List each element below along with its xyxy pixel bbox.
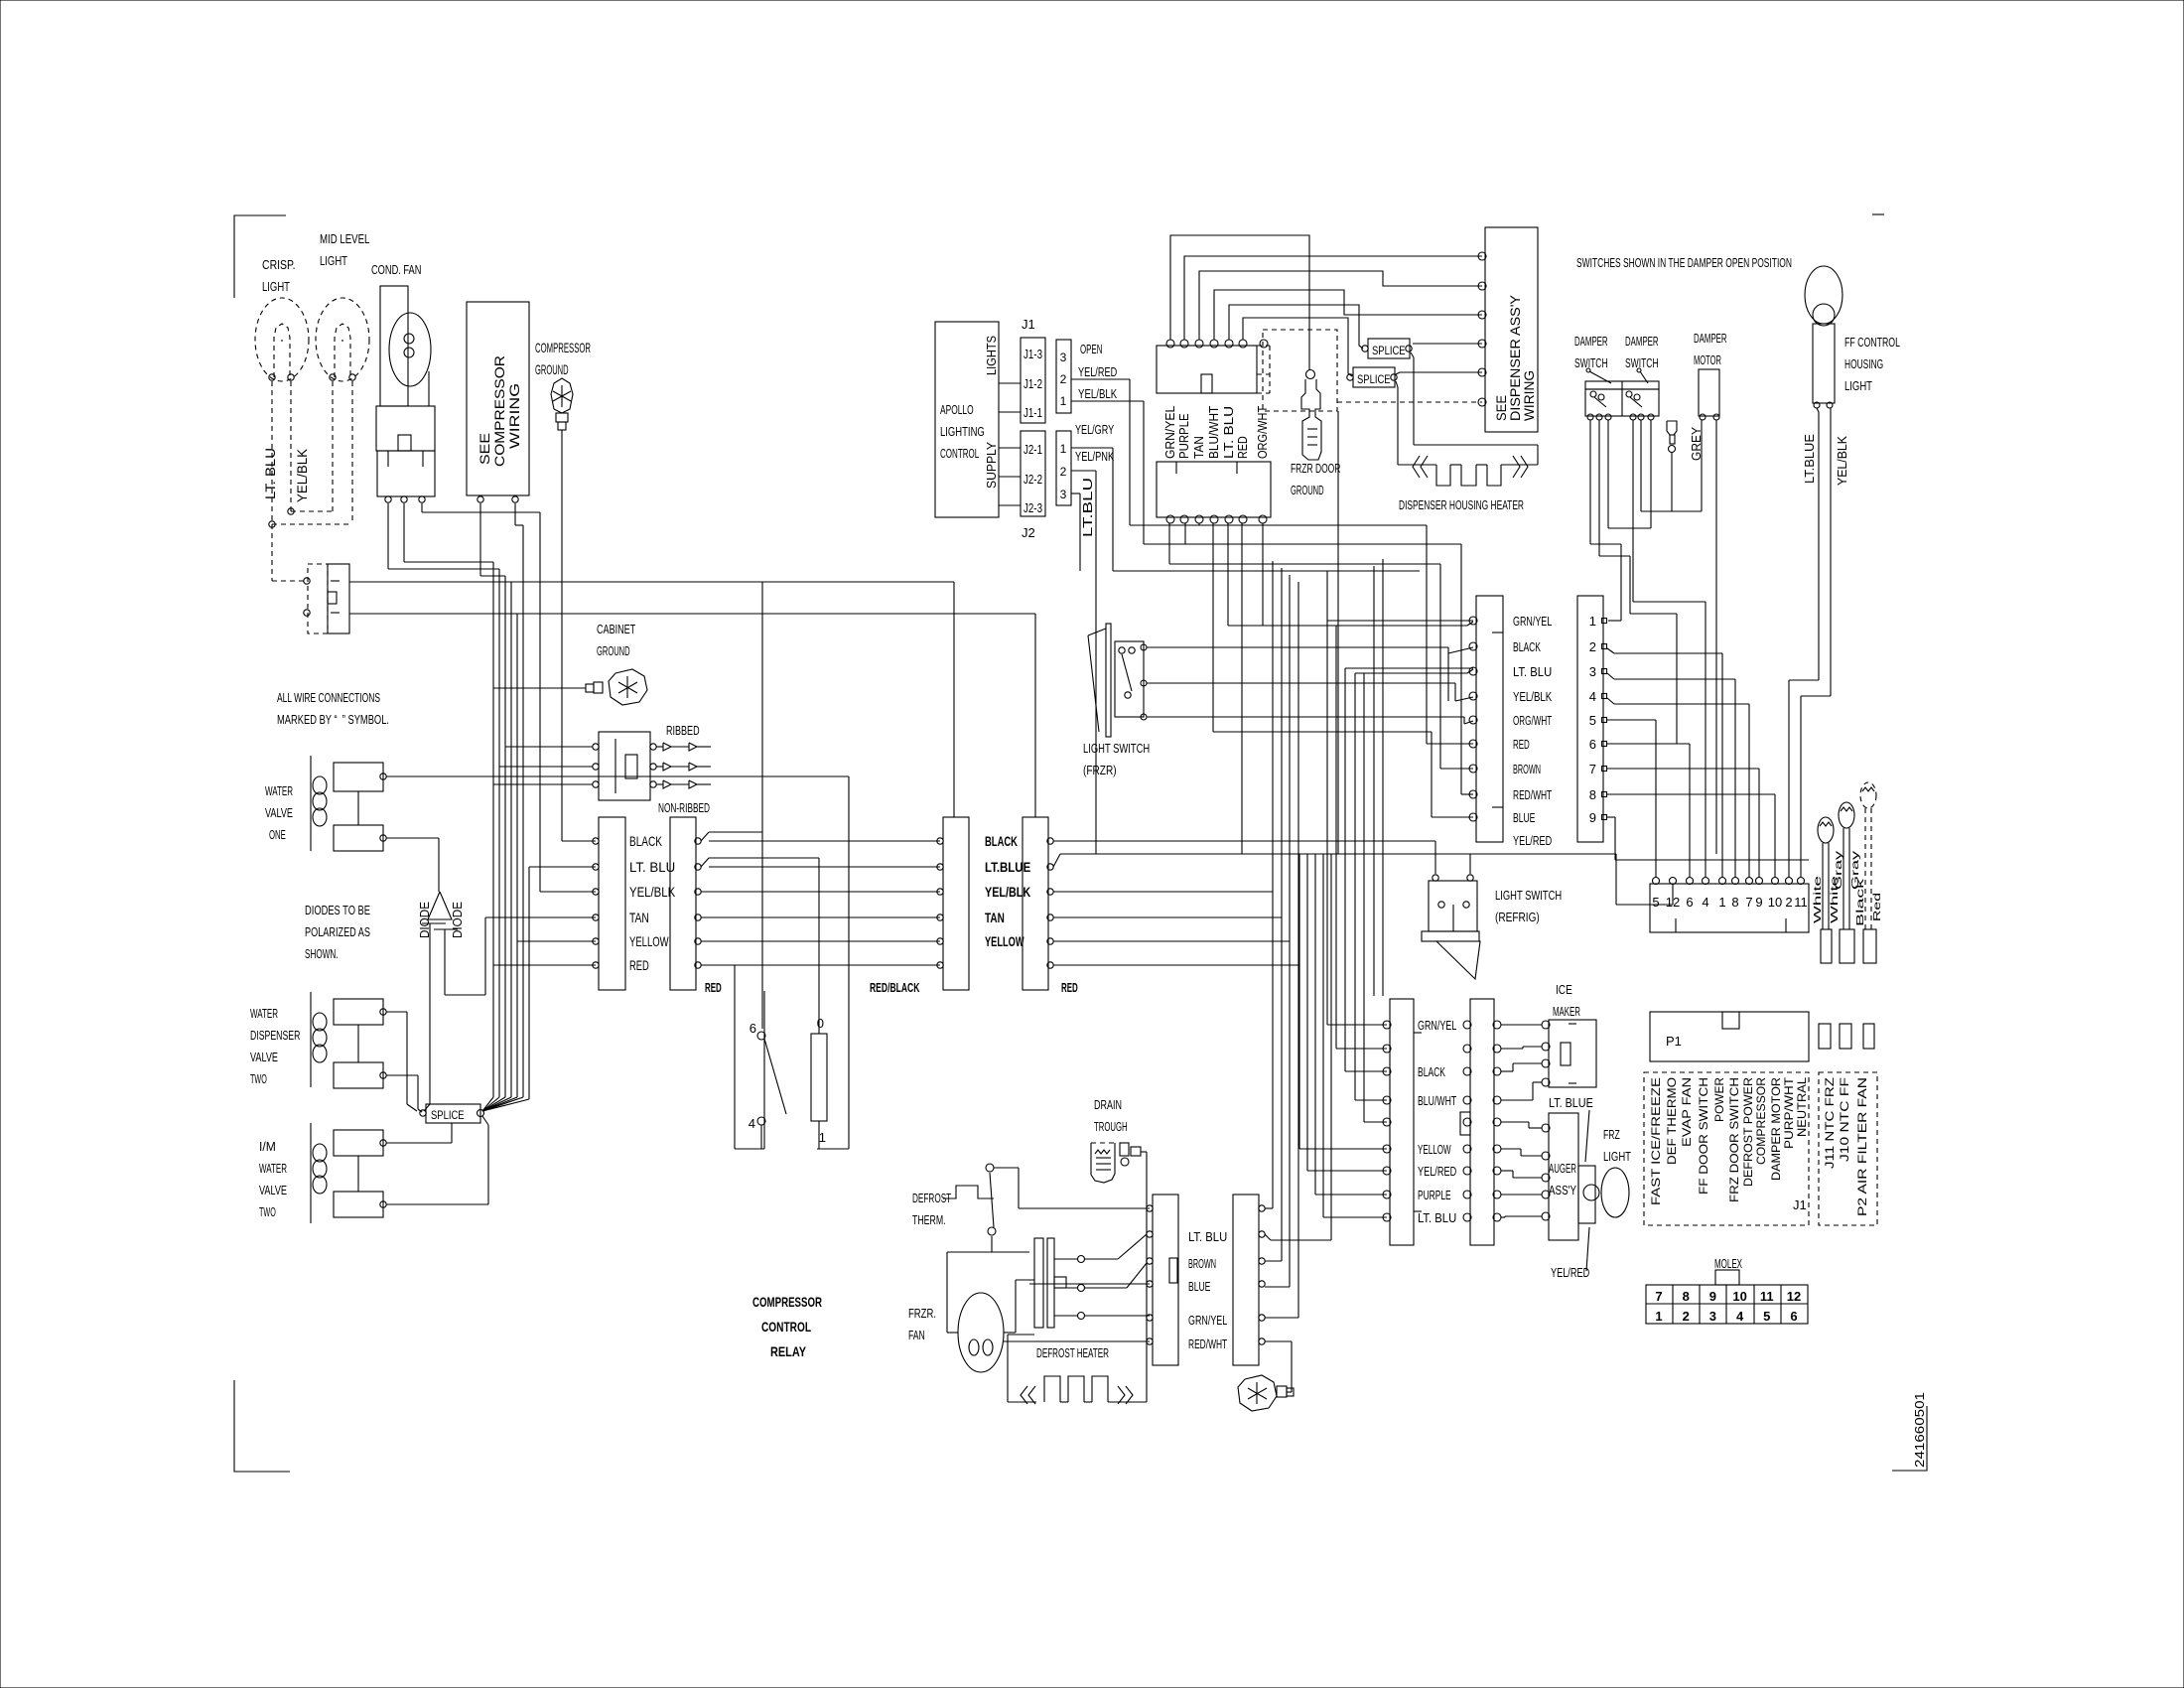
svg-text:FF CONTROL: FF CONTROL bbox=[1844, 335, 1900, 350]
wire S4 BLACK to light switch refrig bbox=[1053, 840, 1435, 842]
wires GC-R to auger bbox=[1501, 1121, 1529, 1123]
svg-text:CONTROL: CONTROL bbox=[940, 446, 979, 461]
svg-text:SWITCH: SWITCH bbox=[1574, 355, 1608, 370]
svg-text:HOUSING: HOUSING bbox=[1844, 356, 1883, 371]
svg-text:LT.BLU: LT.BLU bbox=[1080, 478, 1095, 537]
svg-text:9: 9 bbox=[1709, 1289, 1716, 1304]
wire splice A down to heater bbox=[1411, 352, 1414, 357]
svg-text:1: 1 bbox=[1655, 1309, 1662, 1324]
svg-text:6: 6 bbox=[1790, 1309, 1797, 1324]
svg-text:DISPENSER HOUSING HEATER: DISPENSER HOUSING HEATER bbox=[1399, 497, 1524, 512]
svg-text:SWITCHES SHOWN IN THE DAMPER O: SWITCHES SHOWN IN THE DAMPER OPEN POSITI… bbox=[1576, 255, 1792, 270]
svg-text:RED: RED bbox=[1513, 737, 1530, 752]
damper motor bbox=[1699, 369, 1719, 416]
connector GC-L bbox=[1390, 999, 1414, 1245]
svg-text:LT. BLU: LT. BLU bbox=[1221, 406, 1236, 459]
wire NB9 jog bbox=[1607, 816, 1615, 818]
svg-text:PURP/WHT: PURP/WHT bbox=[1782, 1076, 1796, 1149]
wires apollo to J2 bbox=[999, 447, 1021, 449]
wire switch to right y618 bbox=[349, 613, 1035, 615]
svg-text:AUGER: AUGER bbox=[1549, 1161, 1576, 1176]
svg-text:Gray: Gray bbox=[1834, 851, 1844, 890]
svg-text:SPLICE: SPLICE bbox=[1357, 372, 1391, 386]
wire switch to right y586 bbox=[349, 581, 954, 583]
wire risers right of bundle bbox=[1373, 566, 1375, 996]
wire cabinet ground bbox=[493, 687, 586, 689]
svg-text:YEL/BLK: YEL/BLK bbox=[1078, 386, 1117, 401]
svg-text:RED: RED bbox=[1235, 436, 1250, 459]
dashed box J1 signal names bbox=[1644, 1072, 1809, 1225]
wire LT.BLU jog to resistor bbox=[701, 858, 709, 867]
svg-text:4: 4 bbox=[1702, 895, 1708, 910]
bundle B wires into GC-L lower bbox=[1298, 854, 1300, 1149]
wires into CB GRN/YEL double bbox=[1327, 620, 1473, 622]
svg-text:YEL/BLK: YEL/BLK bbox=[1835, 436, 1849, 486]
svg-text:P1: P1 bbox=[1666, 1034, 1682, 1049]
cond fan motor bbox=[380, 286, 408, 406]
svg-text:LIGHT SWITCH: LIGHT SWITCH bbox=[1083, 741, 1150, 756]
connector J2 pin box bbox=[1056, 431, 1071, 505]
wire valve two bottom bbox=[386, 1074, 418, 1076]
svg-text:LT.BLUE: LT.BLUE bbox=[1802, 434, 1817, 484]
svg-text:ORG/WHT: ORG/WHT bbox=[1513, 713, 1552, 728]
svg-text:TWO: TWO bbox=[259, 1204, 276, 1219]
ff control housing light bulb bbox=[1805, 266, 1843, 324]
svg-text:6: 6 bbox=[1686, 895, 1693, 910]
wire NB1 to damper bbox=[1608, 620, 1621, 622]
svg-text:RED/BLACK: RED/BLACK bbox=[870, 980, 920, 995]
relay resistor bbox=[811, 1034, 827, 1121]
svg-text:J1-3: J1-3 bbox=[1024, 347, 1042, 361]
svg-text:ONE: ONE bbox=[269, 827, 286, 842]
svg-text:12: 12 bbox=[1666, 895, 1680, 910]
svg-text:YEL/RED: YEL/RED bbox=[1513, 833, 1552, 848]
wire dashed box riser down bbox=[1337, 411, 1339, 854]
svg-text:0: 0 bbox=[817, 1016, 824, 1031]
wire L1 to frzr door ground bbox=[1170, 235, 1309, 370]
svg-text:White: White bbox=[1813, 875, 1824, 923]
svg-text:VALVE: VALVE bbox=[259, 1183, 287, 1197]
svg-text:LIGHT SWITCH: LIGHT SWITCH bbox=[1495, 888, 1562, 903]
svg-text:6: 6 bbox=[1589, 737, 1596, 752]
wire fan bottom to strip bbox=[1004, 1340, 1150, 1342]
svg-text:DISPENSER: DISPENSER bbox=[250, 1028, 300, 1043]
svg-text:4: 4 bbox=[1736, 1309, 1744, 1324]
crisp light bulb bbox=[255, 298, 309, 381]
svg-text:2: 2 bbox=[1683, 1309, 1690, 1324]
svg-text:YEL/PNK: YEL/PNK bbox=[1075, 449, 1114, 464]
svg-text:VALVE: VALVE bbox=[250, 1050, 278, 1064]
wire i/m valve bottom bbox=[386, 1203, 488, 1205]
svg-text:YEL/RED: YEL/RED bbox=[1418, 1164, 1456, 1179]
svg-text:Red: Red bbox=[1872, 893, 1883, 921]
page corner bracket bottom-left bbox=[234, 1380, 290, 1472]
svg-text:DAMPER MOTOR: DAMPER MOTOR bbox=[1769, 1077, 1783, 1181]
wire J2 pin2 YEL/PNK bbox=[1071, 470, 1096, 472]
svg-text:9: 9 bbox=[1589, 810, 1596, 825]
svg-text:TROUGH: TROUGH bbox=[1094, 1119, 1128, 1134]
svg-text:BLACK: BLACK bbox=[1418, 1064, 1445, 1079]
svg-text:4: 4 bbox=[1589, 689, 1596, 704]
wire J1 pin1 YEL/BLK bbox=[1071, 400, 1144, 402]
svg-text:YELLOW: YELLOW bbox=[1418, 1142, 1451, 1157]
damper switch assembly bbox=[1585, 381, 1659, 389]
dashed box NTC bbox=[1819, 1072, 1877, 1225]
svg-text:WIRING: WIRING bbox=[1521, 370, 1537, 421]
svg-text:YEL/RED: YEL/RED bbox=[1078, 364, 1117, 379]
frzr fan bbox=[958, 1293, 1004, 1372]
svg-text:TAN: TAN bbox=[1191, 436, 1206, 459]
svg-text:POWER: POWER bbox=[1712, 1077, 1726, 1122]
connector CB (wire colors) bbox=[1476, 596, 1503, 842]
svg-text:(FRZR): (FRZR) bbox=[1083, 763, 1117, 777]
wires into CB RED BROWN RED/WHT bbox=[1427, 743, 1473, 745]
dashed box frzr door ground bbox=[1263, 330, 1337, 411]
svg-text:FAN: FAN bbox=[908, 1328, 925, 1342]
svg-text:LIGHT: LIGHT bbox=[320, 253, 347, 268]
light switch (refrig) bbox=[1429, 881, 1477, 931]
svg-text:COMPRESSOR: COMPRESSOR bbox=[752, 1294, 822, 1310]
svg-text:LIGHTING: LIGHTING bbox=[940, 424, 985, 439]
svg-text:BROWN: BROWN bbox=[1513, 762, 1541, 776]
svg-text:9: 9 bbox=[1755, 895, 1762, 910]
svg-text:1: 1 bbox=[1060, 442, 1067, 456]
svg-text:DEF THERMO: DEF THERMO bbox=[1665, 1077, 1679, 1165]
svg-text:POLARIZED AS: POLARIZED AS bbox=[305, 924, 370, 939]
svg-text:RIBBED: RIBBED bbox=[666, 723, 700, 738]
svg-text:241660501: 241660501 bbox=[1912, 1392, 1927, 1468]
svg-text:7: 7 bbox=[1589, 762, 1596, 776]
svg-text:SHOWN.: SHOWN. bbox=[305, 946, 339, 961]
svg-text:11: 11 bbox=[1794, 895, 1808, 910]
wire J1 pin2 YEL/RED bbox=[1071, 378, 1130, 380]
svg-text:YEL/BLK: YEL/BLK bbox=[1513, 689, 1552, 704]
wire S4 YELLOW down bbox=[1053, 940, 1290, 942]
wire refrig switch right terminal bbox=[1469, 854, 1471, 874]
svg-text:LT. BLU: LT. BLU bbox=[1513, 664, 1552, 679]
svg-text:3: 3 bbox=[1060, 488, 1067, 501]
wire defrost therm top to strip bbox=[994, 1167, 1019, 1169]
wire J2 pin1 YEL/GRY bbox=[1071, 447, 1113, 449]
svg-text:BLACK: BLACK bbox=[1513, 639, 1541, 654]
svg-text:PURPLE: PURPLE bbox=[1176, 413, 1191, 459]
wire bundle verticals to splice bbox=[492, 562, 494, 1097]
svg-text:NON-RIBBED: NON-RIBBED bbox=[658, 800, 710, 815]
wires block lower down-steps bbox=[1168, 523, 1170, 564]
svg-text:YELLOW: YELLOW bbox=[985, 933, 1024, 949]
bottom connector 11-pin bbox=[1650, 884, 1809, 932]
svg-text:DEFROST POWER: DEFROST POWER bbox=[1741, 1077, 1755, 1187]
svg-text:LT. BLU: LT. BLU bbox=[1418, 1210, 1456, 1225]
svg-text:COMPRESSOR: COMPRESSOR bbox=[535, 340, 591, 355]
drain trough bbox=[1091, 1142, 1118, 1144]
svg-text:WATER: WATER bbox=[259, 1161, 287, 1176]
svg-text:J2: J2 bbox=[1022, 525, 1035, 540]
splice fan-down wires bbox=[482, 1116, 488, 1125]
part number bracket bottom-right bbox=[1892, 1406, 1927, 1471]
see dispenser assy wiring box bbox=[1485, 227, 1538, 432]
wire NB5 to pin5 bbox=[1607, 719, 1656, 721]
wire damper motor right down bbox=[1715, 420, 1717, 854]
wire see-compressor terminals into bundle bbox=[479, 503, 481, 576]
svg-text:GROUND: GROUND bbox=[597, 643, 630, 658]
wires S2 to S3 bbox=[701, 891, 940, 893]
svg-text:OPEN: OPEN bbox=[1080, 342, 1102, 356]
svg-text:6: 6 bbox=[750, 1021, 756, 1036]
apollo lighting control box bbox=[935, 322, 999, 517]
wire drain trough down right bbox=[1146, 1152, 1148, 1402]
svg-text:J1: J1 bbox=[1022, 317, 1035, 332]
wires DS2 right bbox=[1265, 1207, 1273, 1209]
middle connector block upper bbox=[1157, 346, 1257, 393]
cabinet ground 2 bbox=[1238, 1375, 1277, 1411]
svg-text:NEUTRAL: NEUTRAL bbox=[1795, 1077, 1809, 1137]
light switch (mid-level, top-left) bbox=[308, 564, 328, 633]
compressor ground lug bbox=[551, 378, 573, 413]
connector NB (numbered) bbox=[1577, 596, 1603, 842]
svg-text:FF DOOR SWITCH: FF DOOR SWITCH bbox=[1697, 1077, 1710, 1195]
svg-text:YELLOW: YELLOW bbox=[629, 933, 669, 949]
svg-text:J2-2: J2-2 bbox=[1024, 472, 1042, 487]
svg-text:Black: Black bbox=[1855, 877, 1866, 926]
svg-text:P2 AIR FILTER FAN: P2 AIR FILTER FAN bbox=[1855, 1077, 1869, 1216]
svg-text:2: 2 bbox=[1060, 465, 1067, 479]
svg-text:COND. FAN: COND. FAN bbox=[371, 262, 421, 277]
wire NB3 to pin8 bbox=[1607, 673, 1614, 679]
wire heater left up bbox=[1007, 1335, 1009, 1402]
thermistor gray bbox=[1839, 802, 1854, 828]
svg-text:(REFRIG): (REFRIG) bbox=[1495, 910, 1540, 924]
svg-text:10: 10 bbox=[1768, 895, 1782, 910]
svg-text:LT. BLUE: LT. BLUE bbox=[1549, 1095, 1593, 1110]
molex connector bbox=[1646, 1285, 1808, 1324]
svg-text:COMPRESSOR: COMPRESSOR bbox=[491, 355, 507, 467]
svg-text:MID LEVEL: MID LEVEL bbox=[320, 231, 369, 246]
wire J2 pin3 LT.BLU bbox=[1071, 492, 1080, 494]
wire L6 to splice B bbox=[1243, 318, 1352, 376]
svg-text:7: 7 bbox=[1745, 895, 1752, 910]
svg-text:1: 1 bbox=[1060, 394, 1067, 408]
svg-text:8: 8 bbox=[1731, 895, 1738, 910]
wire valve one bottom to diode bbox=[386, 837, 439, 839]
svg-text:J2-1: J2-1 bbox=[1024, 442, 1042, 457]
wire L4 to dispenser t3 bbox=[1214, 290, 1482, 340]
svg-text:1: 1 bbox=[1589, 614, 1596, 629]
svg-text:BROWN: BROWN bbox=[1188, 1256, 1216, 1271]
svg-text:LT. BLU: LT. BLU bbox=[1188, 1229, 1227, 1244]
svg-text:TAN: TAN bbox=[985, 910, 1005, 925]
svg-text:MAKER: MAKER bbox=[1553, 1004, 1580, 1019]
wire YEL/BLK from ff light to pin11 bbox=[1830, 408, 1832, 696]
middle connector block lower bbox=[1157, 462, 1271, 517]
wire splice A to dispenser t4 bbox=[1413, 343, 1482, 345]
svg-text:FRZR.: FRZR. bbox=[908, 1306, 936, 1321]
svg-text:TWO: TWO bbox=[250, 1071, 267, 1086]
connector strip S2 bbox=[670, 817, 696, 990]
svg-text:YEL/GRY: YEL/GRY bbox=[1075, 422, 1114, 437]
connector GC-R bbox=[1470, 999, 1494, 1245]
svg-text:LIGHTS: LIGHTS bbox=[984, 336, 999, 375]
wire BLACK jog to relay bbox=[701, 832, 709, 841]
svg-text:LIGHT: LIGHT bbox=[262, 279, 290, 294]
svg-text:3: 3 bbox=[1709, 1309, 1716, 1324]
bundle A wires into GC-L bbox=[1326, 571, 1328, 1025]
svg-text:MARKED BY “ ” SYMBOL.: MARKED BY “ ” SYMBOL. bbox=[277, 712, 389, 727]
defrost heater element bbox=[1008, 1401, 1036, 1403]
wire S4 LT.BLUE long jog bbox=[1053, 854, 1060, 867]
wires heater assy to strip DS1 bbox=[1085, 1258, 1118, 1260]
svg-text:RED/WHT: RED/WHT bbox=[1513, 787, 1552, 802]
damper switch wires bbox=[1589, 420, 1591, 544]
svg-text:YEL/BLK: YEL/BLK bbox=[294, 448, 310, 502]
heater chevrons right bbox=[1513, 456, 1520, 478]
wire crisp light dashed bbox=[271, 381, 273, 581]
splice A box bbox=[1368, 339, 1410, 358]
wires into CB LT.BLU double bbox=[1345, 667, 1473, 669]
connector strip S1 bbox=[599, 817, 625, 990]
svg-text:3: 3 bbox=[1060, 351, 1067, 364]
wires light switch frzr to connector bbox=[1147, 646, 1448, 648]
heater chevrons left bbox=[1413, 456, 1420, 478]
svg-text:COMPRESSOR: COMPRESSOR bbox=[1754, 1077, 1768, 1165]
svg-text:5: 5 bbox=[1589, 713, 1596, 728]
diode symbols bbox=[428, 892, 452, 919]
svg-text:12: 12 bbox=[1787, 1289, 1801, 1304]
svg-text:RED: RED bbox=[629, 957, 649, 973]
defrost strip DS2 bbox=[1233, 1195, 1259, 1365]
svg-text:1: 1 bbox=[819, 1130, 826, 1145]
svg-text:FRZ: FRZ bbox=[1603, 1127, 1620, 1142]
wire ground 2 riser bbox=[1291, 1341, 1293, 1392]
svg-text:ASS'Y: ASS'Y bbox=[1549, 1183, 1576, 1197]
svg-text:GRN/YEL: GRN/YEL bbox=[1188, 1313, 1227, 1328]
svg-text:J10 NTC FF: J10 NTC FF bbox=[1838, 1077, 1851, 1162]
wire L2 to dispenser t1 bbox=[1184, 256, 1482, 340]
svg-text:J1: J1 bbox=[1793, 1197, 1807, 1212]
svg-text:EVAP FAN: EVAP FAN bbox=[1680, 1077, 1694, 1147]
svg-text:CONTROL: CONTROL bbox=[761, 1319, 811, 1335]
svg-text:J2-3: J2-3 bbox=[1024, 500, 1042, 515]
svg-text:ALL WIRE CONNECTIONS: ALL WIRE CONNECTIONS bbox=[277, 690, 380, 705]
svg-text:DAMPER: DAMPER bbox=[1694, 331, 1727, 346]
svg-text:SPLICE: SPLICE bbox=[1372, 344, 1406, 357]
svg-text:SWITCH: SWITCH bbox=[1625, 355, 1659, 370]
svg-text:BLUE: BLUE bbox=[1188, 1279, 1211, 1294]
wire YEL/BLK long vertical bbox=[539, 512, 541, 892]
wires apollo to J1 bbox=[999, 382, 1021, 384]
svg-text:WIRING: WIRING bbox=[506, 383, 522, 449]
svg-text:LT. BLU: LT. BLU bbox=[262, 448, 278, 499]
svg-text:SEE: SEE bbox=[477, 433, 492, 465]
svg-text:J1-1: J1-1 bbox=[1024, 405, 1042, 420]
svg-text:BLACK: BLACK bbox=[985, 833, 1018, 849]
svg-text:GRN/YEL: GRN/YEL bbox=[1418, 1018, 1456, 1033]
mid level light bulb bbox=[316, 298, 369, 381]
svg-text:DAMPER: DAMPER bbox=[1574, 334, 1608, 349]
svg-text:SUPPLY: SUPPLY bbox=[984, 442, 999, 489]
svg-text:BLU/WHT: BLU/WHT bbox=[1206, 406, 1221, 459]
wire i/m valve top to splice bbox=[386, 1142, 452, 1144]
svg-text:WATER: WATER bbox=[250, 1006, 278, 1021]
wire splice B to dispenser t5 bbox=[1396, 372, 1400, 374]
light switch (frzr) bbox=[1106, 624, 1111, 737]
wire NB2 to pin1 bbox=[1607, 648, 1614, 653]
connector P1 bbox=[1650, 1012, 1809, 1061]
thermistor black/red dashed bbox=[1860, 782, 1876, 808]
wire NB4 to pin7 bbox=[1607, 698, 1614, 704]
wires GC-R to ice maker bbox=[1501, 1024, 1542, 1026]
connector J1 bbox=[1021, 338, 1045, 423]
auger assy box bbox=[1549, 1113, 1578, 1240]
wire defrost therm bottom to fan bbox=[991, 1236, 993, 1252]
compressor control relay bbox=[763, 991, 765, 1149]
wire mid light dashed bbox=[332, 381, 334, 511]
wire splice B down to heater bbox=[1396, 381, 1398, 387]
wire RED into strip bbox=[493, 964, 596, 966]
svg-text:WATER: WATER bbox=[265, 783, 293, 798]
svg-text:BLU/WHT: BLU/WHT bbox=[1418, 1093, 1456, 1108]
defrost heater chevrons bbox=[1021, 1386, 1027, 1404]
see compressor wiring box bbox=[467, 302, 529, 495]
wire S4 RED down bbox=[1053, 964, 1298, 966]
svg-text:3: 3 bbox=[1589, 664, 1596, 679]
connector J1 pin box bbox=[1056, 340, 1071, 413]
svg-text:2: 2 bbox=[1785, 895, 1792, 910]
diode output wires bbox=[429, 923, 431, 1104]
frz light bulb bbox=[1578, 1166, 1595, 1223]
wire NB6 to pin6 bbox=[1607, 743, 1690, 745]
svg-text:YEL/BLK: YEL/BLK bbox=[985, 884, 1030, 900]
svg-text:8: 8 bbox=[1589, 787, 1596, 802]
cond fan terminals bbox=[385, 496, 391, 502]
middle connector dashed extension bbox=[1269, 346, 1271, 393]
wire RED to relay bbox=[734, 965, 736, 1149]
wire S4 TAN down bbox=[1053, 916, 1282, 918]
connector strip S3 bbox=[943, 817, 969, 990]
wire LT.BLUE from ff light to pin2 bbox=[1817, 408, 1819, 412]
ribbed arrows bbox=[656, 746, 663, 748]
svg-text:TAN: TAN bbox=[629, 910, 649, 925]
svg-text:DAMPER: DAMPER bbox=[1625, 334, 1659, 349]
svg-text:LIGHT: LIGHT bbox=[1844, 378, 1872, 393]
splice B box bbox=[1353, 367, 1395, 387]
svg-text:2: 2 bbox=[1589, 639, 1596, 654]
cond fan terminal block bbox=[376, 406, 435, 451]
svg-text:5: 5 bbox=[1763, 1309, 1770, 1324]
svg-text:RED/WHT: RED/WHT bbox=[1188, 1336, 1227, 1351]
svg-text:ICE: ICE bbox=[1556, 982, 1572, 997]
page corner bracket top-left bbox=[234, 215, 286, 298]
splice box (left) bbox=[426, 1104, 480, 1123]
svg-text:J1-2: J1-2 bbox=[1024, 376, 1042, 391]
svg-text:BLUE: BLUE bbox=[1513, 810, 1536, 825]
connector J2 bbox=[1021, 431, 1045, 516]
wire NB8 to pin10 bbox=[1607, 793, 1775, 795]
svg-text:FRZR DOOR: FRZR DOOR bbox=[1291, 461, 1340, 476]
svg-text:YEL/BLK: YEL/BLK bbox=[629, 884, 676, 900]
svg-text:RED: RED bbox=[1061, 980, 1078, 995]
wire L5 to splice A bbox=[1229, 305, 1363, 349]
svg-text:YEL/RED: YEL/RED bbox=[1551, 1265, 1589, 1280]
svg-text:CRISP.: CRISP. bbox=[262, 257, 296, 272]
wire NB7 to pin9 bbox=[1607, 768, 1759, 770]
three pads bbox=[1819, 1024, 1831, 1049]
svg-text:J11 NTC FRZ: J11 NTC FRZ bbox=[1823, 1077, 1837, 1169]
ice maker box bbox=[1549, 1020, 1596, 1087]
svg-text:5: 5 bbox=[1652, 895, 1659, 910]
wire TAN into strip bbox=[485, 916, 596, 918]
defrost strip DS1 bbox=[1153, 1195, 1178, 1365]
